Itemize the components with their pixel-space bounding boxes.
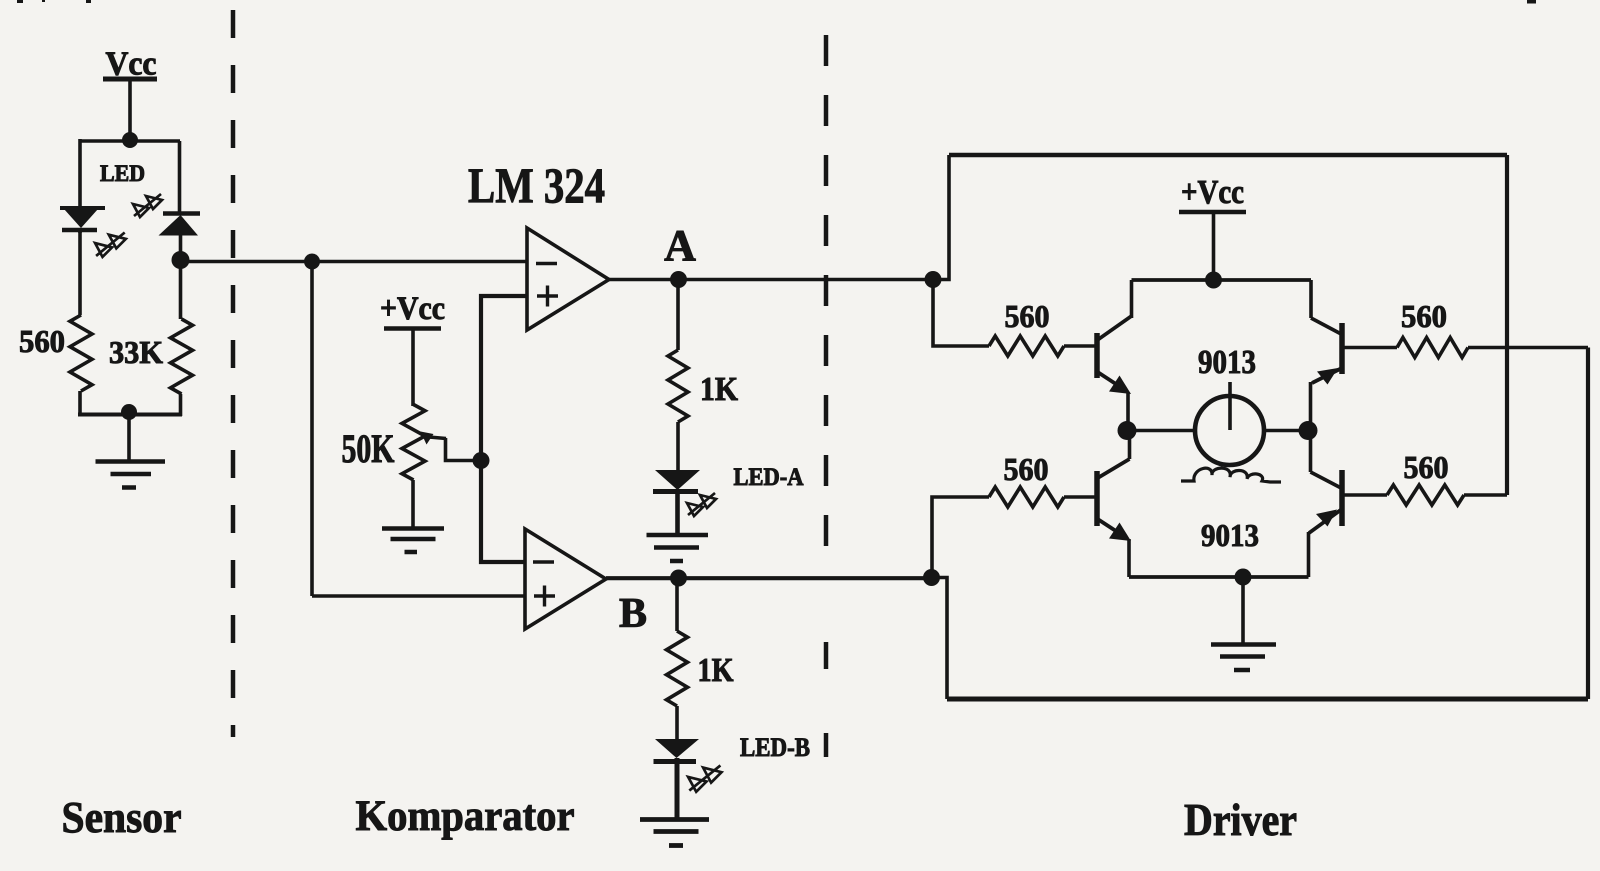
svg-text:33K: 33K	[109, 334, 163, 370]
wire node A down-leg to Q1 base	[933, 280, 989, 347]
potentiometer 50K	[402, 405, 481, 529]
label A	[664, 221, 696, 270]
svg-text:LED-B: LED-B	[740, 733, 810, 762]
resistor 560 (upper-left)	[989, 336, 1097, 356]
svg-text:Sensor: Sensor	[62, 793, 182, 842]
svg-text:9013: 9013	[1201, 517, 1259, 553]
LED-B	[654, 706, 700, 820]
right vertical wire from top rail	[1505, 155, 1509, 495]
transistor Q1 9013 (upper-left)	[1096, 280, 1132, 431]
svg-text:50K: 50K	[342, 426, 395, 471]
wire U1A output to node A	[609, 278, 933, 282]
wire sensor loop left upper	[78, 139, 82, 208]
node B junction dot (driver)	[923, 569, 940, 586]
ground (LED-B)	[640, 820, 709, 846]
ground (LED-A)	[647, 535, 709, 561]
junction dot wiper node	[473, 452, 490, 469]
label 50K	[342, 426, 395, 471]
light arrows into D2	[133, 194, 162, 217]
section label Komparator	[356, 793, 575, 840]
label 560 (lower-left)	[1004, 451, 1049, 487]
transistor Q3 9013 (lower-left)	[1096, 431, 1131, 578]
wire motor left	[1127, 429, 1196, 433]
wire node A up-leg to top rail	[933, 155, 949, 280]
emitter rail (lower)	[1129, 575, 1309, 579]
wire sensor bottom	[78, 413, 182, 417]
node B dot	[670, 570, 687, 587]
label 560 (sensor)	[19, 323, 65, 359]
junction dot sensor output	[172, 251, 190, 269]
wire sensor loop top	[79, 139, 180, 142]
right outer vertical wire	[1586, 348, 1590, 700]
svg-text:560: 560	[1005, 298, 1050, 334]
svg-text:Driver: Driver	[1184, 795, 1297, 845]
label LED-A	[734, 464, 804, 491]
wire motor right	[1264, 429, 1309, 433]
svg-text:+Vcc: +Vcc	[1181, 174, 1244, 211]
scan specks top edge	[17, 0, 1536, 4]
label 1K (A)	[700, 371, 738, 408]
dashed separator sensor/komparator	[231, 10, 236, 737]
junction dot sensor bottom	[121, 404, 137, 420]
motor M (circle with needle)	[1195, 382, 1264, 465]
wire Q2 base to resistor	[1342, 346, 1397, 350]
svg-text:560: 560	[1401, 298, 1447, 334]
label 560 (upper-right)	[1401, 298, 1447, 334]
bottom rail wire	[947, 697, 1588, 702]
wire to op-amp U1A inverting input	[312, 260, 527, 264]
dashed separator komparator/driver	[824, 35, 829, 757]
junction dot sensor top	[122, 132, 138, 148]
node A dot	[670, 271, 687, 288]
light arrows of LED D1	[95, 233, 126, 257]
ground (driver)	[1211, 577, 1276, 670]
svg-text:560: 560	[1004, 451, 1049, 487]
junction dot emitter rail	[1235, 569, 1252, 586]
svg-text:+Vcc: +Vcc	[380, 291, 445, 327]
motor left junction dot	[1118, 421, 1137, 440]
label LED-B	[740, 733, 810, 762]
svg-text:LED-A: LED-A	[734, 464, 804, 491]
LED D1 (left, emitter)	[60, 208, 105, 233]
resistor 560 (upper-right)	[1397, 338, 1588, 358]
transistor Q2 9013 (upper-right)	[1311, 280, 1344, 431]
wire node B down-leg to bottom rail	[932, 578, 948, 700]
ground (potentiometer)	[382, 529, 444, 553]
top rail wire	[949, 153, 1507, 158]
wire Q4 base to resistor	[1342, 493, 1387, 497]
resistor 1K (B)	[667, 578, 688, 706]
light arrows of LED-B	[688, 765, 721, 791]
svg-text:1K: 1K	[698, 652, 734, 689]
svg-text:560: 560	[1404, 449, 1449, 485]
resistor 1K (A)	[668, 280, 688, 423]
power symbol +Vcc (driver)	[1179, 174, 1246, 280]
resistor 33K (sensor)	[171, 262, 193, 416]
svg-text:LED: LED	[100, 161, 145, 186]
section label Driver	[1184, 795, 1297, 845]
svg-text:LM 324: LM 324	[468, 157, 605, 213]
label 9013 (upper)	[1198, 344, 1256, 381]
svg-text:9013: 9013	[1198, 344, 1256, 381]
label LM 324	[468, 157, 605, 213]
photodiode D2 (right, detector)	[159, 214, 201, 263]
label 9013 (lower)	[1201, 517, 1259, 553]
label B	[619, 591, 647, 637]
wire U1B output to node B	[606, 576, 932, 580]
section label Sensor	[62, 793, 182, 842]
power symbol +Vcc (komparator)	[380, 291, 445, 406]
op-amp U1B	[525, 529, 606, 629]
wire U1A non-inverting input run	[481, 296, 527, 562]
resistor 560 (lower-left)	[989, 487, 1097, 507]
label 33K	[109, 334, 163, 370]
op-amp U1A	[527, 228, 609, 330]
svg-text:1K: 1K	[700, 371, 738, 408]
collector rail (upper)	[1132, 278, 1312, 282]
junction dot +Vcc rail	[1205, 272, 1222, 289]
resistor 560 (sensor)	[70, 230, 92, 416]
wire sensor to comparator	[181, 260, 313, 264]
transistor Q4 9013 (lower-right)	[1309, 431, 1344, 578]
wire sensor loop right upper	[178, 141, 182, 214]
power symbol Vcc (sensor)	[103, 46, 157, 142]
svg-text:A: A	[664, 221, 696, 270]
junction dot comparator input	[304, 254, 320, 270]
label 560 (lower-right)	[1404, 449, 1449, 485]
motor coil symbol	[1181, 468, 1281, 482]
svg-text:Komparator: Komparator	[356, 793, 575, 840]
svg-text:B: B	[619, 591, 647, 637]
label 1K (B)	[698, 652, 734, 689]
ground (sensor)	[96, 414, 166, 488]
label LED	[100, 161, 145, 186]
motor right junction dot	[1299, 421, 1318, 440]
wire node to U1B non-inverting input	[312, 262, 525, 597]
svg-text:560: 560	[19, 323, 65, 359]
LED-A	[653, 422, 700, 535]
label 560 (upper-left)	[1005, 298, 1050, 334]
resistor 560 (lower-right)	[1387, 485, 1507, 505]
wire node B up-leg to Q3 base	[932, 497, 989, 578]
node A junction dot (driver)	[925, 271, 942, 288]
light arrows of LED-A	[687, 493, 716, 516]
